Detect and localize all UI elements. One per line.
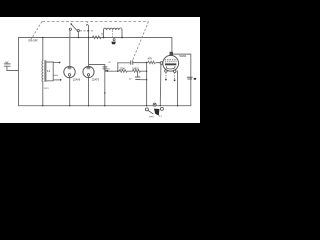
svg-text:SPK: SPK xyxy=(149,116,154,118)
svg-text:12AT6: 12AT6 xyxy=(92,77,100,81)
svg-text:47K: 47K xyxy=(148,58,153,61)
svg-text:50A5: 50A5 xyxy=(179,54,186,58)
svg-text:ON-OFF: ON-OFF xyxy=(28,39,38,42)
svg-text:220K: 220K xyxy=(120,69,126,71)
svg-text:117V: 117V xyxy=(44,88,49,90)
svg-text:1MEG: 1MEG xyxy=(132,69,139,71)
svg-text:12AV6: 12AV6 xyxy=(73,78,81,82)
